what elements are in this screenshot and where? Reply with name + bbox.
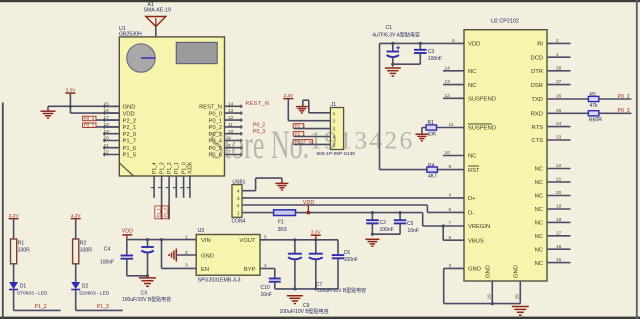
svg-text:23: 23 [556, 135, 562, 141]
USB1 reference label [232, 180, 245, 186]
svg-text:D+: D+ [468, 196, 476, 202]
J1 part number 606-1P-05P-S130 [317, 151, 356, 157]
svg-text:P1_2: P1_2 [167, 162, 173, 174]
U2 bottom pin 19 GND [486, 265, 493, 303]
USB1 CON4 label [232, 218, 246, 224]
U2 pin 14 NC [443, 65, 476, 75]
svg-text:15: 15 [556, 257, 562, 263]
resistor R4 4K7 [427, 167, 438, 172]
svg-text:22: 22 [556, 163, 562, 169]
J1 pin 5 number [333, 142, 336, 148]
net label P2_2 boxed at J1 pin3 [293, 123, 330, 128]
U2 pin 19 NC [535, 204, 571, 214]
U2 pin 24 RTS [532, 121, 571, 131]
svg-text:1: 1 [237, 211, 240, 217]
ground at CX [139, 278, 156, 286]
rotated net label P1_1 at U1 bottom [155, 206, 161, 219]
svg-text:S20603 - LED: S20603 - LED [79, 291, 110, 297]
IC U3 SPG2031EMB body [196, 235, 260, 276]
svg-text:24: 24 [556, 121, 562, 127]
C5 labels [407, 221, 419, 234]
power VDD port at U3 VIN [122, 228, 133, 239]
U2 pin 8 VBUS [449, 235, 484, 245]
svg-text:P1_1: P1_1 [155, 207, 160, 217]
svg-text:REST_N: REST_N [199, 105, 222, 111]
svg-text:P2_1: P2_1 [84, 123, 95, 128]
svg-text:USB1: USB1 [232, 180, 245, 186]
U1 bottom pin P1_1 [173, 162, 180, 198]
U1 pin 18 P2_1 [103, 122, 136, 131]
wire VBUS rail F1 to VREGIN [296, 213, 444, 226]
wire USB1 pin4 to ground [242, 178, 282, 191]
wire LED D1 to net P1_2 [14, 290, 61, 310]
U2 pin 13 NC [443, 79, 476, 89]
wire 3.3V to resistor R2 [75, 219, 77, 239]
wire 3.3V to U1 VDD pin 16 [69, 93, 120, 113]
svg-text:3: 3 [237, 196, 240, 202]
svg-text:13: 13 [228, 108, 234, 114]
wire LED D2 to net P1_3 [76, 290, 123, 310]
USB1 pin 4 number [237, 189, 240, 195]
svg-text:10: 10 [445, 150, 451, 156]
svg-text:P1_3: P1_3 [159, 162, 165, 174]
svg-text:100nF: 100nF [428, 56, 442, 62]
U2 pin 28 DTR [531, 65, 570, 75]
svg-text:10nF: 10nF [261, 292, 272, 298]
wire RST rail to U2 pin9 [380, 169, 465, 171]
svg-text:VDD: VDD [468, 42, 480, 48]
svg-text:NC: NC [468, 83, 476, 89]
svg-text:VREGIN: VREGIN [468, 224, 490, 230]
U2 pin 20 NC [535, 190, 571, 200]
svg-text:7: 7 [449, 221, 452, 227]
ground at C1 [385, 68, 401, 76]
U3 reference label [198, 228, 205, 234]
U2 pin 10 NC [443, 150, 476, 160]
svg-text:SUSPEND: SUSPEND [468, 97, 496, 103]
J1 pin 3 number [333, 127, 336, 133]
svg-text:P1_6: P1_6 [123, 146, 137, 152]
J1 pin 1 number [333, 111, 336, 117]
svg-text:D2: D2 [82, 283, 89, 289]
svg-text:P2_2: P2_2 [84, 116, 95, 121]
U1 pin 20 P1_7 [103, 136, 136, 145]
U3 pin 5 VOUT [239, 235, 267, 245]
svg-text:DTR: DTR [531, 69, 543, 75]
svg-text:SMA-KE-19: SMA-KE-19 [144, 8, 172, 14]
ground at VOUT rail [287, 296, 303, 304]
U2 pin 9 RST [449, 164, 481, 174]
svg-text:GND: GND [486, 265, 492, 278]
F1 labels [278, 219, 287, 233]
U2 pin 5 D- [449, 207, 475, 217]
antenna A1 symbol [146, 17, 166, 27]
svg-text:C2: C2 [380, 220, 387, 226]
svg-text:RXD: RXD [531, 112, 543, 118]
svg-text:19: 19 [487, 294, 493, 300]
wire 3.3V to J1 pin2 [288, 99, 330, 121]
svg-text:GND: GND [123, 105, 136, 111]
svg-text:NC: NC [535, 167, 543, 173]
C2 labels [380, 220, 394, 233]
LED D1 [9, 282, 18, 290]
wire D- net USB1 pin2 to U2 pin5 [242, 205, 464, 212]
svg-text:C5: C5 [407, 221, 414, 227]
U1 bottom pin P1_4 [151, 162, 158, 198]
C3 labels [428, 49, 442, 62]
U2 pin 2 RI [537, 38, 570, 48]
svg-text:VDD: VDD [122, 228, 133, 234]
U1 bottom pin P1_3 [158, 162, 165, 219]
U2 pin 3 GND [449, 263, 481, 273]
U2 pin 12 SUSPEND [443, 93, 496, 103]
svg-text:4: 4 [237, 189, 240, 195]
svg-text:P0_0: P0_0 [208, 111, 222, 117]
U2 pin 22 NC [535, 163, 571, 173]
svg-text:NC: NC [535, 194, 543, 200]
svg-text:GND: GND [201, 253, 214, 259]
svg-text:J1: J1 [331, 102, 337, 108]
wire U3 GND pin to ground [177, 254, 197, 256]
net label P0_3 at U1 pin 10 [253, 129, 265, 135]
svg-text:21: 21 [104, 143, 110, 149]
svg-text:330R: 330R [80, 248, 92, 254]
svg-text:TXD: TXD [531, 97, 543, 103]
svg-text:BYP: BYP [244, 267, 256, 273]
svg-text:21: 21 [556, 177, 562, 183]
svg-text:SUSPEND: SUSPEND [468, 126, 496, 132]
svg-text:R1: R1 [18, 241, 25, 247]
U2 pin 16 NC [535, 244, 571, 254]
J1 reference label [331, 102, 337, 108]
capacitor C10 10nF [269, 279, 281, 289]
svg-text:P2_1: P2_1 [123, 125, 137, 131]
svg-text:100uF/10V B型贴电容: 100uF/10V B型贴电容 [317, 287, 366, 294]
capacitor C2 100nF [366, 211, 379, 236]
svg-text:R4: R4 [428, 163, 435, 169]
svg-text:6: 6 [452, 38, 455, 44]
svg-text:DSR: DSR [531, 83, 543, 89]
wire U1 GND pin 15 to ground [48, 106, 119, 111]
svg-text:12: 12 [445, 93, 451, 99]
svg-text:REST_N: REST_N [246, 101, 270, 107]
U3 pin 2 GND [185, 250, 214, 259]
C9 labels [280, 303, 329, 315]
svg-text:100nF: 100nF [100, 259, 114, 265]
svg-text:20: 20 [104, 136, 110, 142]
rotated net label P1_0 at U1 bottom [162, 206, 168, 219]
svg-text:47k: 47k [590, 103, 599, 109]
svg-text:NC: NC [535, 234, 543, 240]
U3 part number [198, 277, 241, 283]
capacitor C9 100uF electrolytic [288, 240, 302, 291]
R5 labels [590, 92, 599, 109]
svg-text:13: 13 [445, 79, 451, 85]
svg-text:3: 3 [185, 262, 188, 268]
U1 bottom pin P1_0 [180, 162, 187, 198]
svg-text:28: 28 [556, 65, 562, 71]
resistor R5 47k [588, 96, 599, 101]
U2 pin 25 RXD [531, 108, 562, 118]
capacitor C7 100uF electrolytic [309, 240, 323, 291]
svg-text:29: 29 [515, 294, 521, 300]
R1 labels [18, 241, 30, 254]
svg-text:100nF: 100nF [380, 227, 394, 233]
svg-text:U3: U3 [198, 228, 205, 234]
wire U3 VOUT rail [260, 238, 338, 241]
C7 labels [316, 282, 366, 294]
svg-text:P1_3: P1_3 [97, 304, 109, 310]
svg-text:U2 CP2102: U2 CP2102 [491, 18, 519, 24]
svg-text:12: 12 [228, 115, 234, 121]
svg-text:4K7: 4K7 [428, 173, 437, 179]
svg-text:16: 16 [556, 244, 562, 250]
svg-text:0R: 0R [596, 117, 603, 123]
svg-text:NC: NC [535, 207, 543, 213]
svg-text:C10: C10 [261, 285, 270, 291]
svg-text:R5: R5 [590, 92, 597, 98]
capacitor C6 100nF [332, 240, 345, 289]
svg-text:2: 2 [333, 119, 336, 125]
svg-text:ST0603 - LED: ST0603 - LED [17, 291, 48, 297]
svg-text:1: 1 [333, 111, 336, 117]
wire U2 GND pin3 to ground rail [444, 268, 521, 305]
watermark text [210, 124, 415, 168]
svg-text:F1: F1 [278, 219, 284, 225]
svg-text:4: 4 [449, 193, 452, 199]
power 3.3V at R1 [9, 213, 20, 219]
svg-text:19: 19 [104, 129, 110, 135]
svg-text:100uF/10V B型贴电容: 100uF/10V B型贴电容 [122, 296, 171, 303]
J1 pin 4 number [333, 135, 336, 141]
svg-text:C6: C6 [344, 250, 351, 256]
USB1 pin 1 number [237, 211, 240, 217]
svg-text:22: 22 [104, 150, 110, 156]
U3 pin 3 EN [185, 262, 209, 272]
R2 labels [80, 241, 92, 254]
U2 pin 7 VREGIN [449, 221, 491, 231]
ground at C2 [365, 239, 379, 246]
capacitor C3 100nF [414, 42, 427, 64]
USB1 pin 3 number [237, 196, 240, 202]
svg-text:GB2530H: GB2530H [119, 31, 142, 37]
svg-text:GND: GND [468, 267, 481, 273]
svg-text:17: 17 [556, 230, 562, 236]
net label P0_3 at R6 [618, 108, 630, 114]
power 3.3V at VOUT rail [311, 229, 322, 239]
resistor R2 330R [73, 239, 79, 264]
svg-text:1913426: 1913426 [309, 126, 414, 155]
svg-text:P1_7: P1_7 [123, 139, 137, 145]
D1 labels [17, 283, 48, 296]
svg-text:CX: CX [141, 290, 149, 296]
svg-text:100nF: 100nF [344, 257, 358, 263]
wire VDD rail down to RST pullup [379, 43, 381, 169]
wire C2 C5 ground rail [372, 233, 400, 235]
connector J1 body [330, 108, 343, 150]
net label P0_2 at U1 pin 11 [253, 123, 265, 129]
svg-text:P1_0: P1_0 [163, 207, 168, 217]
C1 labels [372, 25, 420, 39]
svg-text:CTS: CTS [531, 138, 543, 144]
wire RXD U2 pin25 [547, 112, 631, 114]
wire U2 VDD pin6 rail [380, 42, 465, 44]
U1 pin 19 P2_0 [103, 129, 136, 138]
svg-text:C3: C3 [428, 49, 435, 55]
svg-text:NC: NC [535, 180, 543, 186]
U1 pin 11 P0_2 [208, 122, 242, 131]
svg-text:27: 27 [556, 79, 562, 85]
net label REST_N at U1 pin 14 [246, 101, 270, 107]
wire C1 to C3 bottom rail [393, 63, 421, 65]
capacitor C4 100nF [121, 240, 134, 276]
U1 bottom pin P1_2 [166, 162, 173, 219]
svg-text:NC: NC [535, 221, 543, 227]
wire R1 to LED D1 [13, 264, 15, 282]
U1 pin 7 P0_6 [208, 150, 242, 159]
svg-text:NC: NC [535, 261, 543, 267]
svg-text:NC: NC [535, 247, 543, 253]
svg-text:1: 1 [556, 52, 559, 58]
antenna A1 SMA-KE-19 labels [144, 2, 172, 14]
net label P0_2 at R5 [618, 94, 630, 100]
svg-text:2: 2 [556, 38, 559, 44]
svg-text:P1_4: P1_4 [152, 162, 158, 174]
wire J1 pin1 hook to ground [303, 100, 331, 113]
U3 pin 1 VIN [185, 235, 211, 244]
svg-text:19: 19 [556, 204, 562, 210]
U2 pin 21 NC [535, 177, 571, 187]
svg-text:X32K: X32K [188, 161, 194, 174]
svg-text:14: 14 [445, 65, 451, 71]
U2 pin 15 NC [535, 257, 571, 267]
wire EN tie to VDD [162, 240, 197, 269]
U1 pin 15 GND [103, 101, 135, 110]
C6 labels [344, 250, 358, 263]
net label P1_2 [35, 304, 47, 310]
svg-text:330R: 330R [18, 248, 30, 254]
ground at USB1 pin4 [275, 183, 288, 190]
svg-text:RST: RST [468, 168, 480, 174]
svg-text:RI: RI [537, 42, 543, 48]
ground at U1 GND [41, 111, 56, 118]
svg-text:P0_2: P0_2 [618, 94, 630, 100]
U1 pin 21 P1_6 [103, 143, 136, 152]
U2 pin 18 NC [535, 217, 571, 227]
power 3.3V at U1 [65, 87, 76, 93]
net label REST_N boxed at J1 pin5 [293, 139, 330, 144]
svg-text:R2: R2 [80, 241, 87, 247]
C4 labels [100, 246, 114, 265]
U2 pin 27 DSR [531, 79, 571, 89]
ground at R1 [415, 134, 428, 141]
svg-text:VIN: VIN [201, 238, 211, 244]
svg-text:3R3: 3R3 [278, 227, 287, 233]
svg-text:C1: C1 [386, 25, 393, 31]
net label P1_3 [97, 304, 109, 310]
node VREGIN junction [442, 224, 464, 240]
svg-text:8: 8 [449, 235, 452, 241]
U1 pin 9 P0_4 [208, 136, 242, 145]
svg-text:VBUS: VBUS [468, 238, 484, 244]
svg-text:5: 5 [449, 207, 452, 213]
capacitor CX 100uF electrolytic [141, 240, 154, 278]
svg-text:P1_0: P1_0 [181, 162, 187, 174]
svg-text:GND: GND [514, 265, 520, 278]
svg-text:RTS: RTS [532, 125, 544, 131]
U1 pin 14 REST_N [199, 101, 242, 110]
U3 pin 4 BYP [244, 263, 267, 273]
J1 pin 2 number [333, 119, 336, 125]
svg-text:P1_5: P1_5 [123, 153, 137, 159]
net label P2_2 boxed at U1 pin 17 [83, 116, 120, 121]
R6 labels [589, 117, 602, 124]
svg-text:14: 14 [228, 101, 234, 107]
svg-text:2: 2 [237, 203, 240, 209]
connector USB1 body [232, 185, 242, 218]
wire D+ net USB1 pin3 to U2 pin4 [242, 197, 464, 199]
R1 labels [428, 120, 438, 137]
svg-text:EN: EN [201, 267, 209, 273]
svg-text:Store No.: Store No. [210, 124, 310, 168]
C10 labels [261, 285, 272, 298]
net label P2_1 boxed at J1 pin4 [293, 131, 330, 136]
U1 bottom pin X32K [187, 161, 194, 198]
wire VOUT cap ground rail [275, 288, 338, 290]
CX labels [122, 290, 171, 303]
power VDD port on VBUS rail [303, 200, 314, 215]
U2 reference label [491, 18, 519, 24]
svg-text:D1: D1 [20, 283, 27, 289]
svg-text:P1_2: P1_2 [35, 304, 47, 310]
R4 labels [428, 163, 437, 180]
LED D2 [71, 282, 80, 290]
ground sideways at U3 GND [169, 249, 176, 262]
U1 pin 17 P2_2 [103, 115, 136, 124]
U2 pin 23 CTS [531, 135, 570, 145]
svg-text:4u7F/6.3V A型贴电容: 4u7F/6.3V A型贴电容 [372, 31, 420, 38]
wire USB1 pin1 to fuse F1 [242, 212, 274, 214]
svg-text:P1_1: P1_1 [174, 162, 180, 174]
wire R2 to LED D2 [75, 264, 77, 282]
IC U1 GB2530H body [119, 37, 224, 176]
U1 internal block rectangle [176, 42, 217, 63]
wire 3.3V to resistor R1 [13, 219, 15, 239]
svg-text:20: 20 [556, 190, 562, 196]
svg-text:10K: 10K [428, 131, 438, 137]
D2 labels [79, 283, 110, 296]
svg-text:NC: NC [468, 154, 476, 160]
U1 internal RF circle [127, 44, 155, 72]
svg-text:D-: D- [468, 211, 474, 217]
fuse F1 3R3 [274, 210, 296, 216]
U1 pin 10 P0_3 [208, 129, 242, 138]
svg-text:18: 18 [556, 217, 562, 223]
svg-text:VOUT: VOUT [239, 238, 256, 244]
U2 pin 6 VDD [452, 38, 480, 48]
power 3.3V at J1 [283, 93, 294, 99]
U1 pin 22 P1_5 [103, 150, 136, 159]
svg-text:100uF/10V B型贴电容: 100uF/10V B型贴电容 [280, 308, 329, 315]
USB1 pin 2 number [237, 203, 240, 209]
wire VDD to U3 VIN [127, 238, 196, 241]
svg-text:R1: R1 [428, 120, 435, 126]
wire TXD U2 pin26 [547, 98, 631, 100]
power 3.3V at R2 [71, 213, 82, 219]
U1 pin 13 P0_0 [208, 108, 242, 117]
svg-text:VDD: VDD [123, 111, 135, 117]
U2 pin 4 D+ [449, 193, 477, 203]
